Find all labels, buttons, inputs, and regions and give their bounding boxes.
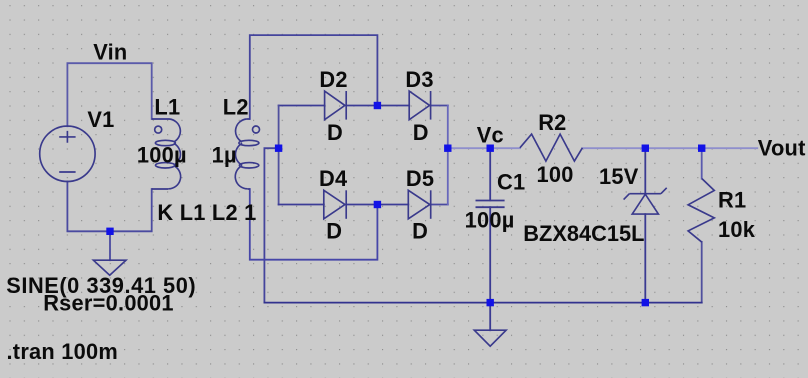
svg-text:.tran 100m: .tran 100m — [7, 339, 119, 364]
svg-text:V1: V1 — [87, 107, 114, 132]
svg-text:Rser=0.0001: Rser=0.0001 — [43, 291, 174, 316]
svg-text:C1: C1 — [497, 169, 525, 194]
svg-text:Vin: Vin — [93, 40, 127, 65]
svg-text:L1: L1 — [154, 95, 180, 120]
svg-text:R1: R1 — [718, 187, 746, 212]
svg-text:D: D — [326, 218, 342, 243]
svg-text:L2: L2 — [223, 95, 249, 120]
svg-text:D: D — [327, 120, 343, 145]
svg-text:K L1 L2 1: K L1 L2 1 — [157, 200, 256, 225]
svg-text:10k: 10k — [718, 217, 756, 242]
svg-text:D4: D4 — [319, 166, 347, 191]
svg-text:100µ: 100µ — [465, 208, 515, 233]
svg-text:R2: R2 — [538, 110, 566, 135]
svg-text:100µ: 100µ — [137, 142, 187, 167]
svg-text:100: 100 — [537, 162, 574, 187]
svg-text:BZX84C15L: BZX84C15L — [523, 221, 644, 246]
svg-text:D: D — [412, 218, 428, 243]
svg-text:D: D — [413, 120, 429, 145]
svg-text:D3: D3 — [405, 67, 433, 92]
svg-text:D2: D2 — [319, 67, 347, 92]
svg-text:15V: 15V — [599, 164, 639, 189]
svg-text:D5: D5 — [406, 166, 434, 191]
svg-text:Vc: Vc — [477, 122, 504, 147]
svg-text:Vout: Vout — [758, 136, 806, 161]
svg-text:1µ: 1µ — [212, 142, 237, 167]
